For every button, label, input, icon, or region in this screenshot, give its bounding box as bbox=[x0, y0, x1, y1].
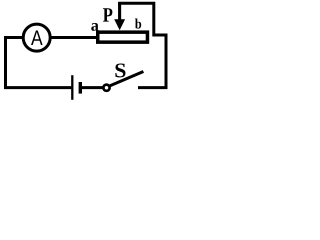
wire: switch fixed contact, bottom-right, right vertical, step, top run to wiper bbox=[118, 3, 166, 87]
wire: ammeter to rheostat terminal a bbox=[50, 36, 98, 39]
switch S pivot bbox=[103, 85, 109, 91]
battery cell: long positive plate bbox=[71, 75, 73, 100]
label P bbox=[103, 8, 112, 21]
label a (terminal a) bbox=[91, 23, 98, 31]
label S bbox=[115, 63, 125, 77]
wiper arrow of rheostat P bbox=[114, 3, 125, 30]
battery cell: short negative plate bbox=[79, 82, 82, 94]
wire: battery to switch pivot bbox=[82, 86, 103, 89]
ammeter A1 bbox=[23, 24, 50, 51]
wire: left branch (top-left corner, left vertical, bottom-left run to battery) bbox=[6, 38, 72, 88]
switch S lever (open) bbox=[110, 72, 143, 86]
resistor P (rheostat body) bbox=[98, 32, 148, 42]
label b (terminal b) bbox=[135, 19, 141, 29]
